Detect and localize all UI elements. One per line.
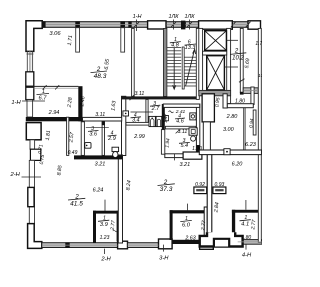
elevator shaft right wall xyxy=(227,28,231,103)
svg-text:8.24: 8.24 xyxy=(125,180,132,191)
opening: top above elevators xyxy=(199,21,233,29)
wall: top window band segment D xyxy=(232,22,248,28)
wall: right room (x250.9) xyxy=(251,87,254,105)
bay window inner step xyxy=(214,239,229,247)
svg-text:37.3: 37.3 xyxy=(160,186,173,193)
elevator car 2 with X xyxy=(207,56,225,90)
wall: room 4.6 top dbl xyxy=(163,104,199,107)
wall: left window y51-72 xyxy=(27,51,34,72)
leader: 3-Н bottom xyxy=(162,245,164,252)
window band midlines xyxy=(42,25,262,246)
leader: 1-Н left xyxy=(22,100,45,102)
svg-text:48.3: 48.3 xyxy=(94,73,107,80)
svg-text:0.75: 0.75 xyxy=(39,154,46,165)
svg-text:1.23: 1.23 xyxy=(100,235,110,241)
small box on wall x163 xyxy=(165,115,168,120)
svg-text:1.94: 1.94 xyxy=(164,138,171,148)
wall: top window band segment C xyxy=(185,22,198,28)
wall: top-left corner pilaster xyxy=(26,21,42,52)
wall: under room 48.3 (y117) xyxy=(83,117,122,121)
elevator leader lines xyxy=(227,39,238,41)
svg-text:2-Н: 2-Н xyxy=(100,256,111,262)
wall: corridor 1.80 bottom (y103.6) xyxy=(227,104,253,108)
wall: top band black pier xyxy=(181,21,185,30)
window mullion right (loggia) xyxy=(121,28,125,52)
window band right mid (y87.6) xyxy=(243,88,258,94)
radiator/shaft symbol 1 xyxy=(149,116,155,126)
leader: 1ЛК 2 xyxy=(189,20,191,30)
svg-text:1.7: 1.7 xyxy=(255,41,262,47)
svg-text:2-Н: 2-Н xyxy=(10,172,21,178)
stair center rail flight1 + down arrow xyxy=(173,48,175,89)
svg-text:1.80: 1.80 xyxy=(241,235,251,241)
wall: partition 3.6/2.9 xyxy=(102,122,104,156)
wall: big vertical divider lower (x118.3) xyxy=(118,155,122,243)
wall: left pilaster 2 y87-99.5 xyxy=(26,87,34,99)
wall: 0.94 stub xyxy=(253,110,256,135)
wall: lobby left (x131.6) xyxy=(132,28,135,96)
room 4.1 walls xyxy=(232,210,259,213)
stair left wall hatched xyxy=(163,28,167,96)
elevator shaft left wall xyxy=(199,28,203,91)
svg-text:4.6: 4.6 xyxy=(176,119,185,125)
black cap end of wall xyxy=(240,92,244,95)
wall: left pilaster y72-86 xyxy=(26,72,34,86)
svg-text:2.80: 2.80 xyxy=(226,114,239,120)
wall: room 3.6 left dbl xyxy=(81,122,84,156)
pilaster in bottom band xyxy=(118,241,128,249)
wall: corridor 10.2 right (x240.3) xyxy=(240,28,243,92)
bay window (erker) outline xyxy=(200,232,243,246)
svg-text:3-Н: 3-Н xyxy=(159,255,169,261)
svg-text:3.21: 3.21 xyxy=(179,162,190,168)
svg-text:4.8: 4.8 xyxy=(171,42,180,48)
wall: left wall y99.5-117 xyxy=(27,100,33,117)
wall: left jog pilaster y122-140 xyxy=(26,123,41,140)
window mullion left (loggia) xyxy=(76,28,80,52)
svg-text:0.94: 0.94 xyxy=(248,118,255,128)
opening: top right xyxy=(248,21,261,29)
leader: 2-Н left xyxy=(22,176,42,178)
svg-text:3.21: 3.21 xyxy=(95,161,106,167)
fixture: washbasin xyxy=(85,143,91,149)
wall: bottom window band left xyxy=(42,243,118,248)
wall: big vertical divider upper (x121.5) xyxy=(122,96,126,155)
svg-text:3.9: 3.9 xyxy=(100,222,109,228)
svg-text:5.69: 5.69 xyxy=(244,58,251,69)
wall: bottom window band mid xyxy=(128,243,159,248)
elevator shaft bottom wall xyxy=(199,90,231,95)
wall: stair block bottom / rooms top (y96.3) xyxy=(122,96,200,99)
svg-text:6.23: 6.23 xyxy=(245,142,257,148)
svg-text:1.71: 1.71 xyxy=(67,35,74,46)
wall: divider room6.0 / corridor 2.84 xyxy=(207,153,212,232)
wall: left notch box y149-160.5 xyxy=(30,149,40,160)
opening: entrance door top (stair lobby) xyxy=(148,21,166,29)
svg-text:3.4: 3.4 xyxy=(132,118,140,124)
svg-text:0.95: 0.95 xyxy=(214,97,221,108)
leader: room 6.0 number xyxy=(187,204,189,211)
stair treads flight 2 xyxy=(184,57,196,86)
svg-text:1ЛК: 1ЛК xyxy=(184,14,195,20)
elevator divider wall xyxy=(203,51,227,55)
fixture: box on divider wall xyxy=(123,111,129,116)
wall: x223 vertical xyxy=(223,94,227,108)
fixture: box with dot on wall xyxy=(224,149,230,155)
svg-text:10.2: 10.2 xyxy=(232,56,244,62)
leader: 2-Н bottom xyxy=(103,249,105,254)
svg-text:5.4: 5.4 xyxy=(180,143,188,149)
svg-text:1-Н: 1-Н xyxy=(11,100,21,106)
wall: room 6.7 top line xyxy=(33,85,78,87)
svg-text:6.7: 6.7 xyxy=(38,96,47,102)
svg-text:0.93: 0.93 xyxy=(215,182,225,188)
pilaster on wall xyxy=(183,152,202,159)
leader: 4-Н bottom xyxy=(245,244,247,249)
svg-text:8.85: 8.85 xyxy=(56,165,63,176)
svg-text:1.63: 1.63 xyxy=(110,100,117,111)
leader: room 4.1 number xyxy=(245,200,247,210)
wall: 0.49 bottom thick (y155.5) xyxy=(74,155,122,159)
wall: x196 vertical (toilet room right) xyxy=(196,104,199,156)
wall: x163 thick xyxy=(162,104,165,130)
wall: right exterior (x258.3) xyxy=(258,28,261,242)
svg-text:3.11: 3.11 xyxy=(134,91,144,97)
svg-text:3.00: 3.00 xyxy=(223,127,235,133)
fixture: toilet (room 5.4) xyxy=(189,128,197,135)
svg-text:1.80: 1.80 xyxy=(235,99,245,105)
svg-text:13.3: 13.3 xyxy=(185,45,197,51)
wall: top window band segment A xyxy=(41,22,148,28)
wall: y122.3 (hall 2.99 top) xyxy=(126,122,163,125)
stair mid wall xyxy=(182,47,184,89)
svg-text:2.94: 2.94 xyxy=(48,110,60,116)
leader: 1ЛК 1 xyxy=(173,20,175,30)
wall: top window band segment B xyxy=(166,22,182,28)
wall: bottom of room 6.0 thick xyxy=(172,240,207,244)
svg-text:1.81: 1.81 xyxy=(45,130,52,141)
pilaster in bottom band 2 xyxy=(159,239,173,249)
svg-text:4.1: 4.1 xyxy=(241,221,249,227)
stair arrow flight 2 xyxy=(186,50,195,86)
svg-text:6.24: 6.24 xyxy=(93,187,104,193)
svg-text:1-Н: 1-Н xyxy=(133,14,142,20)
wall: right thin vertical x244.3 xyxy=(243,108,245,150)
tick top right 1 xyxy=(231,22,236,28)
svg-text:3.6: 3.6 xyxy=(89,132,98,138)
tick on wall 10.2 xyxy=(239,79,245,82)
svg-text:3.11: 3.11 xyxy=(95,112,105,118)
wall: y155 toilet room bottom xyxy=(165,154,197,158)
svg-text:2.63: 2.63 xyxy=(184,236,195,242)
svg-text:1ЛК: 1ЛК xyxy=(168,14,179,20)
svg-text:2.99: 2.99 xyxy=(133,134,145,140)
wall below pilaster xyxy=(203,122,210,152)
wall: toilet room left dbl xyxy=(161,130,164,155)
wall: left wall y160.5-224 xyxy=(29,160,34,223)
tick on wall y96 at lobby xyxy=(130,95,134,100)
wall: room 4.6 bottom y126.2 xyxy=(165,126,196,129)
svg-text:1С: 1С xyxy=(258,73,262,78)
pilaster in bottom band 3 xyxy=(200,239,214,249)
wall: rooms 3.6/2.9 left dbl xyxy=(67,117,69,155)
fixture: toilet room2.9 xyxy=(112,147,119,151)
window pane box on left wall xyxy=(28,187,34,206)
wall: left wall y140-149 xyxy=(30,140,35,149)
svg-text:0.92: 0.92 xyxy=(195,182,205,188)
tick on wall 3.21 xyxy=(174,154,176,160)
leader: 1-Н top xyxy=(136,20,138,32)
wall: bottom-left corner block xyxy=(28,224,42,249)
svg-text:2.7: 2.7 xyxy=(151,106,161,112)
fixture: sink room 4.6 xyxy=(190,113,196,120)
pilaster column right-mid xyxy=(202,94,214,122)
svg-text:41.5: 41.5 xyxy=(70,200,83,207)
stair treads flight 1 xyxy=(167,48,181,86)
svg-text:0.49: 0.49 xyxy=(68,150,78,156)
tick top right 2 xyxy=(246,22,251,28)
wall: room 6.7 right thick xyxy=(78,86,82,121)
room 6.0 walls xyxy=(170,210,211,213)
svg-text:1.90: 1.90 xyxy=(192,146,202,152)
ticks on room 6.7 top wall xyxy=(43,85,47,89)
wall: right section bottom (y150) xyxy=(199,150,261,155)
wall: thick bottom of room 6.7 xyxy=(26,117,83,121)
svg-text:3.06: 3.06 xyxy=(49,31,61,37)
svg-text:6.20: 6.20 xyxy=(232,162,244,168)
stair right wall xyxy=(196,28,199,99)
wall: rooms 3.4/2.7 partition x146 xyxy=(146,99,148,122)
svg-text:6.0: 6.0 xyxy=(182,222,191,228)
leader: room 3.9 number xyxy=(104,200,106,211)
black cap in bottom band xyxy=(65,242,69,248)
svg-text:4-Н: 4-Н xyxy=(242,252,252,258)
radiator/shaft symbol 2 xyxy=(156,116,162,126)
room 3.9 walls xyxy=(93,211,120,214)
svg-text:0.71: 0.71 xyxy=(37,144,44,155)
black caps in top band xyxy=(42,21,46,27)
windows 0.92 / 0.93 xyxy=(194,187,207,194)
svg-text:2.9: 2.9 xyxy=(107,136,116,142)
wall: bottom window band right xyxy=(238,240,263,245)
elevator car 1 with X xyxy=(205,31,227,51)
